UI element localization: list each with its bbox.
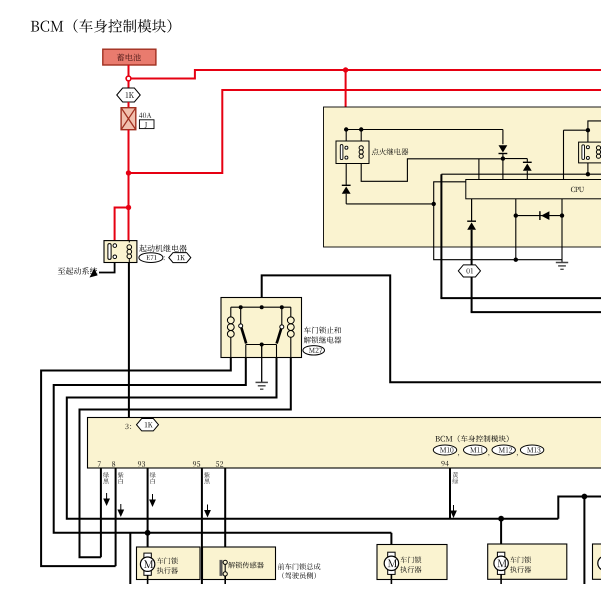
relay2 top dot — [586, 128, 590, 132]
junction dot B — [126, 205, 131, 210]
arrow pin8 — [120, 504, 122, 511]
junction dot right — [582, 494, 588, 500]
wire branch to relay switch — [115, 208, 129, 241]
starter relay E71 box — [104, 241, 137, 263]
node open circle — [126, 76, 131, 81]
relay2 contacts — [586, 146, 589, 149]
connector M11 oval — [464, 445, 487, 455]
junction dot C — [432, 202, 436, 206]
pin93 wire — [147, 468, 149, 533]
wire dot to diode D2 — [503, 158, 527, 160]
wire CPU to diode D5 — [471, 199, 473, 221]
relay2 switch bar — [582, 145, 585, 160]
ignition relay box — [336, 141, 369, 164]
ground G1 — [256, 381, 268, 383]
lock relay inner rail — [231, 306, 291, 308]
arrow to starting system — [90, 268, 98, 277]
engine room module box — [324, 107, 601, 247]
diode D2 up — [523, 161, 532, 163]
wire W1 left coil to pin8 net — [41, 358, 231, 567]
lock relay lever terminals — [245, 345, 247, 358]
comma3 — [517, 454, 518, 456]
ignition relay coil — [359, 146, 363, 150]
title text — [31, 19, 172, 33]
starter relay coil — [127, 245, 132, 250]
wire to starting system — [99, 263, 115, 273]
wire drops to ignition relay — [345, 130, 347, 142]
ignition relay switch bar — [340, 145, 343, 160]
actuator1 label — [157, 557, 178, 564]
wire node branch right — [131, 70, 601, 79]
wire down to junction B — [128, 173, 130, 208]
connector M12 oval — [492, 445, 515, 455]
sensor bar — [220, 560, 223, 576]
comma1 — [458, 454, 459, 456]
wire D3 to junction C — [346, 203, 434, 205]
motor M3 — [388, 552, 395, 557]
door lock actuator 1 box — [137, 547, 201, 580]
pin 3 label — [125, 424, 131, 429]
connector 1K hexagon — [128, 81, 130, 89]
junction dot H2 — [145, 530, 151, 536]
ignition relay label — [372, 148, 409, 155]
wire W4 right coil to pin7 net — [80, 358, 291, 558]
wire to relay coil — [128, 208, 130, 241]
ignition relay dots — [344, 127, 348, 131]
lock relay bottom rail — [246, 344, 277, 346]
junction dot H1 — [498, 516, 504, 522]
wire W2 left lever to H2 — [54, 358, 392, 533]
arrow pin94 — [453, 505, 455, 512]
connector M27 oval — [303, 346, 325, 355]
wire CPU 562 down — [561, 199, 563, 263]
colon — [163, 256, 166, 260]
relay2 box — [579, 142, 601, 163]
junction dot D1 — [501, 156, 505, 160]
connector E71 oval — [139, 253, 163, 263]
battery B1 — [103, 49, 156, 65]
wire ignition coil down — [361, 159, 503, 182]
wire drop right of box4 — [583, 497, 585, 585]
wire junction C up to CPU — [434, 182, 466, 204]
BCM module box — [88, 418, 601, 469]
lock relay ground wire — [261, 345, 263, 383]
diode D5 up — [467, 220, 476, 222]
wire fuse down — [128, 130, 130, 173]
comma2 — [488, 454, 489, 456]
diode D3 ignition switch — [345, 164, 347, 186]
arrow pin95 — [207, 505, 209, 512]
arrow pin93 — [152, 494, 154, 501]
wire branch to right rail 2 — [129, 90, 601, 173]
starter relay label — [139, 245, 187, 252]
wire starter coil to BCM pin3 — [128, 263, 130, 418]
pin52 wire — [224, 468, 226, 560]
motor M1 — [144, 553, 151, 558]
diode D1 down — [502, 130, 504, 145]
wire drop to CPU at 479 — [478, 159, 480, 180]
wire CPU 515 down — [515, 199, 517, 260]
wire W2 drop to actuator3 — [390, 533, 392, 552]
starter relay switch bar — [108, 244, 111, 260]
lock relay M27 box — [221, 298, 302, 358]
connector 01 hexagon — [458, 265, 480, 277]
thick wire through 01 — [471, 230, 473, 312]
relay2 feed wire — [563, 130, 565, 179]
front door lock assembly label — [278, 563, 321, 570]
wire color labels — [103, 472, 109, 484]
motor M5 partial — [598, 556, 601, 570]
sensor contacts — [223, 560, 227, 564]
wire rail drop to ignition relay — [345, 70, 347, 128]
sensor wires — [224, 564, 226, 571]
actuator4 label — [510, 556, 531, 563]
diode D4 left — [514, 213, 518, 217]
lock relay right lever — [277, 329, 282, 344]
wire battery to node — [128, 65, 130, 76]
fuse F1 40A — [121, 108, 136, 130]
ground G2 — [556, 262, 568, 264]
pin8 wire — [115, 468, 117, 566]
ignition relay contacts — [345, 146, 348, 149]
wire W3 jog up right — [558, 497, 601, 519]
pin94 wire — [449, 468, 451, 519]
junction dot A — [126, 170, 131, 175]
wire hexagon to fuse — [128, 102, 130, 108]
fuse J box — [139, 120, 154, 129]
wire H1 drop to actuator4 — [500, 519, 502, 554]
sensor label — [228, 562, 263, 569]
CPU box — [466, 180, 601, 199]
BCM label — [435, 435, 508, 442]
connector M13 oval — [520, 445, 543, 455]
lock relay left contact — [240, 307, 242, 324]
door lock actuator 3 box — [377, 545, 447, 580]
lock relay rail dots — [239, 305, 243, 309]
lock relay label — [304, 327, 341, 334]
wire junction C down to ground rail — [434, 204, 562, 260]
pin95 wire — [201, 468, 203, 584]
door lock actuator 5 box partial — [593, 544, 601, 579]
lock relay left coil — [230, 307, 232, 317]
starter relay contacts — [113, 244, 117, 248]
lock relay right coil — [290, 307, 292, 317]
motor M4 — [497, 552, 504, 557]
door lock actuator 4 box — [488, 544, 567, 579]
connector M10 oval — [433, 445, 456, 455]
wire W2 branch down — [129, 533, 131, 584]
pin7 wire — [100, 468, 102, 557]
label to starting system — [58, 267, 97, 275]
wire B horizontal — [441, 173, 601, 175]
unlock sensor box — [203, 547, 276, 580]
wire W3 right lever to H1 — [67, 358, 559, 519]
lock relay left lever — [241, 328, 246, 344]
pin numbers — [98, 461, 101, 466]
connector 1K hexagon 2 — [169, 253, 191, 263]
wire ignition top rail — [346, 129, 503, 131]
arrow pin7 — [106, 493, 108, 500]
actuator3 label — [400, 556, 421, 563]
lock relay top wire — [262, 275, 601, 382]
relay2 coil bottom wire — [587, 163, 589, 174]
lock relay right contact — [281, 307, 283, 325]
junction dot on top rail — [343, 67, 348, 72]
wire B left drop thick — [440, 174, 442, 298]
relay2 coil — [596, 146, 600, 150]
